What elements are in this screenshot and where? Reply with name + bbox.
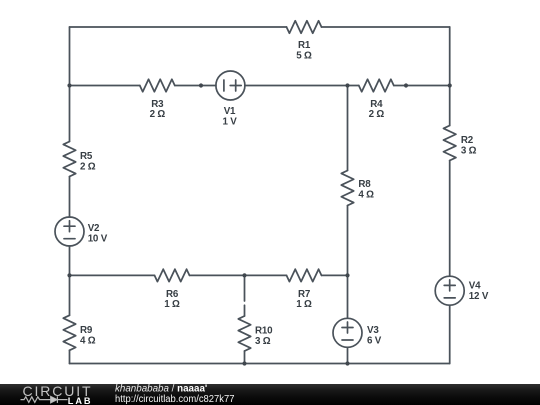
wire mid row: left vertical to R6: [70, 274, 155, 276]
node junction dot left of row2: [67, 83, 71, 87]
svg-text:R1: R1: [298, 40, 311, 51]
resistor R8: [341, 171, 353, 206]
V4 minus bar: [444, 297, 455, 299]
svg-text:1 Ω: 1 Ω: [296, 299, 312, 310]
voltage source V2 circle: [55, 217, 84, 246]
wire R4 to right vertical: [394, 85, 450, 87]
voltage source V3 circle: [333, 318, 362, 347]
svg-text:R3: R3: [151, 99, 164, 110]
resistor R7: [287, 269, 322, 281]
svg-text:10 V: 10 V: [88, 233, 108, 244]
wire R9 to bottom-left corner: [69, 350, 71, 363]
svg-text:2 Ω: 2 Ω: [80, 161, 96, 172]
wire second row: left vertical to R3: [70, 85, 140, 87]
V3 minus bar: [342, 339, 353, 341]
svg-text:R10: R10: [255, 325, 273, 336]
wire top from top-left corner to R1: [70, 26, 287, 28]
wire R10 branch upper segment: [244, 275, 246, 301]
node junction dot mid row right: [345, 273, 349, 277]
node junction dot V3 bottom: [345, 361, 349, 365]
svg-text:3 Ω: 3 Ω: [461, 146, 477, 157]
resistor R5: [63, 142, 75, 177]
svg-text:R8: R8: [358, 179, 371, 190]
resistor R9: [63, 315, 75, 350]
svg-text:khanbababa / naaaa': khanbababa / naaaa': [115, 384, 207, 395]
node junction dot right of R4: [404, 83, 408, 87]
wire V2 to bottom-left junction: [69, 246, 71, 315]
CircuitLab logo zigzag wire and diode: [21, 396, 68, 403]
svg-text:V2: V2: [88, 223, 100, 234]
resistor R2: [444, 126, 456, 161]
wire right vertical top to R2: [449, 27, 451, 126]
node junction dot mid row left: [67, 273, 71, 277]
wire V1 to R8 junction: [245, 85, 359, 87]
svg-text:V3: V3: [367, 325, 379, 336]
node junction dot R10 bottom: [242, 361, 246, 365]
V2 plus sign: [64, 221, 75, 232]
svg-text:R9: R9: [80, 325, 93, 336]
footer black bar: [0, 384, 540, 405]
wire V3 to bottom wire: [347, 347, 349, 363]
svg-text:R4: R4: [370, 99, 383, 110]
wire mid-row junction down to V3: [347, 275, 349, 318]
resistor R6: [155, 269, 190, 281]
wire R6 to R7 through R10 junction: [190, 274, 287, 276]
V1 plus sign: [230, 80, 241, 91]
wire R10 branch below gap: [244, 305, 246, 316]
node junction dot R10 top: [242, 273, 246, 277]
svg-text:2 Ω: 2 Ω: [150, 109, 166, 120]
wire R2 to V4: [449, 161, 451, 277]
wire R8 to mid-row junction: [347, 206, 349, 276]
V4 plus sign: [444, 280, 455, 291]
voltage source V1 circle: [216, 71, 245, 100]
wire bottom from left corner to right corner: [70, 363, 450, 365]
svg-text:12 V: 12 V: [469, 291, 489, 302]
svg-text:4 Ω: 4 Ω: [358, 190, 374, 201]
V2 minus bar: [64, 238, 75, 240]
resistor R3: [140, 79, 175, 91]
svg-text:2 Ω: 2 Ω: [369, 109, 385, 120]
svg-text:R7: R7: [298, 289, 311, 300]
wire R10 to bottom wire: [244, 351, 246, 364]
svg-text:R6: R6: [166, 289, 179, 300]
svg-text:V1: V1: [224, 106, 236, 117]
wire left vertical upper (node A to R5): [69, 27, 71, 142]
svg-text:R5: R5: [80, 151, 93, 162]
wire middle vertical: row2 junction down to R8: [347, 86, 349, 171]
node junction dot at right vertical row2: [448, 83, 452, 87]
wire R7 to middle vertical: [322, 274, 348, 276]
svg-text:LAB: LAB: [68, 396, 91, 405]
wire R3 to V1: [175, 85, 216, 87]
svg-text:5 Ω: 5 Ω: [296, 50, 312, 61]
node junction dot at R8 top: [345, 83, 349, 87]
wire R5 to V2: [69, 177, 71, 218]
svg-text:4 Ω: 4 Ω: [80, 335, 96, 346]
svg-text:1 Ω: 1 Ω: [164, 299, 180, 310]
svg-text:V4: V4: [469, 280, 481, 291]
svg-text:1 V: 1 V: [222, 116, 237, 127]
V3 plus sign: [342, 322, 353, 333]
svg-text:http://circuitlab.com/c827k77: http://circuitlab.com/c827k77: [115, 394, 235, 405]
svg-text:6 V: 6 V: [367, 335, 382, 346]
resistor R10: [238, 316, 250, 351]
resistor R1: [287, 21, 322, 33]
wire V4 to bottom-right corner: [449, 305, 451, 363]
voltage source V4 circle: [435, 276, 464, 305]
svg-text:R2: R2: [461, 135, 474, 146]
resistor R4: [359, 79, 394, 91]
svg-text:3 Ω: 3 Ω: [255, 336, 271, 347]
V1 minus bar: [223, 80, 225, 91]
node junction dot left of V1: [199, 83, 203, 87]
wire top from R1 to top-right corner: [322, 26, 450, 28]
